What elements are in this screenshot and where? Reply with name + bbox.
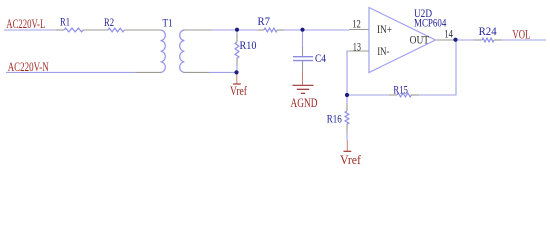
- svg-text:R10: R10: [240, 38, 257, 52]
- svg-text:VOL: VOL: [512, 28, 530, 42]
- svg-text:R2: R2: [104, 15, 114, 29]
- svg-text:C4: C4: [315, 51, 326, 65]
- svg-text:14: 14: [444, 29, 453, 41]
- svg-text:Vref: Vref: [340, 153, 362, 166]
- svg-text:13: 13: [353, 42, 361, 54]
- svg-text:R24: R24: [479, 24, 497, 38]
- svg-text:12: 12: [352, 19, 361, 31]
- svg-text:AGND: AGND: [291, 96, 318, 110]
- svg-text:AC220V-N: AC220V-N: [8, 60, 49, 74]
- svg-text:R7: R7: [258, 14, 271, 28]
- svg-text:R15: R15: [393, 82, 408, 96]
- svg-text:AC220V-L: AC220V-L: [6, 17, 45, 31]
- svg-text:T1: T1: [163, 16, 173, 30]
- svg-text:Vref: Vref: [230, 84, 248, 98]
- svg-text:R1: R1: [60, 15, 70, 29]
- svg-text:R16: R16: [327, 111, 342, 125]
- svg-text:MCP604: MCP604: [414, 15, 446, 29]
- svg-text:IN+: IN+: [377, 24, 392, 36]
- svg-text:OUT: OUT: [410, 35, 430, 47]
- svg-text:IN-: IN-: [377, 46, 389, 58]
